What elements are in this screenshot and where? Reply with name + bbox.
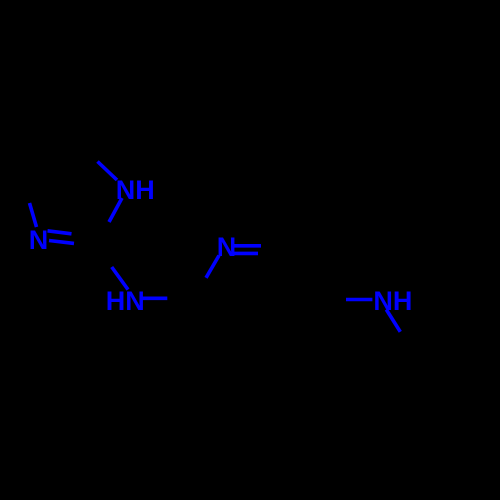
double bond N6=C7 main line (half near N6) <box>233 244 261 248</box>
double bond C2=N3 offset line (half near N3) <box>48 231 72 234</box>
svg-text:HN: HN <box>106 286 145 316</box>
bond N9-CH3 (half near N9) <box>386 310 400 332</box>
bond C2-N4H (half near N4) <box>112 267 128 290</box>
bond N4-C5 (half near N4) <box>141 296 167 300</box>
bond N1H-C2 (half near N1) <box>109 198 122 222</box>
double bond N6=C7 offset line (half near N6) <box>233 252 258 256</box>
bond N3-CH3 (half near N3) <box>30 203 37 227</box>
svg-text:N: N <box>29 225 49 255</box>
bond N6-C5 (half near N6) <box>206 256 219 278</box>
bond CH3-N1H (half near N1) <box>98 162 118 181</box>
svg-text:NH: NH <box>373 286 412 316</box>
double bond C2=N3 main line (half near N3) <box>49 241 74 244</box>
bond C8-N9H (half near N9) <box>346 298 372 302</box>
